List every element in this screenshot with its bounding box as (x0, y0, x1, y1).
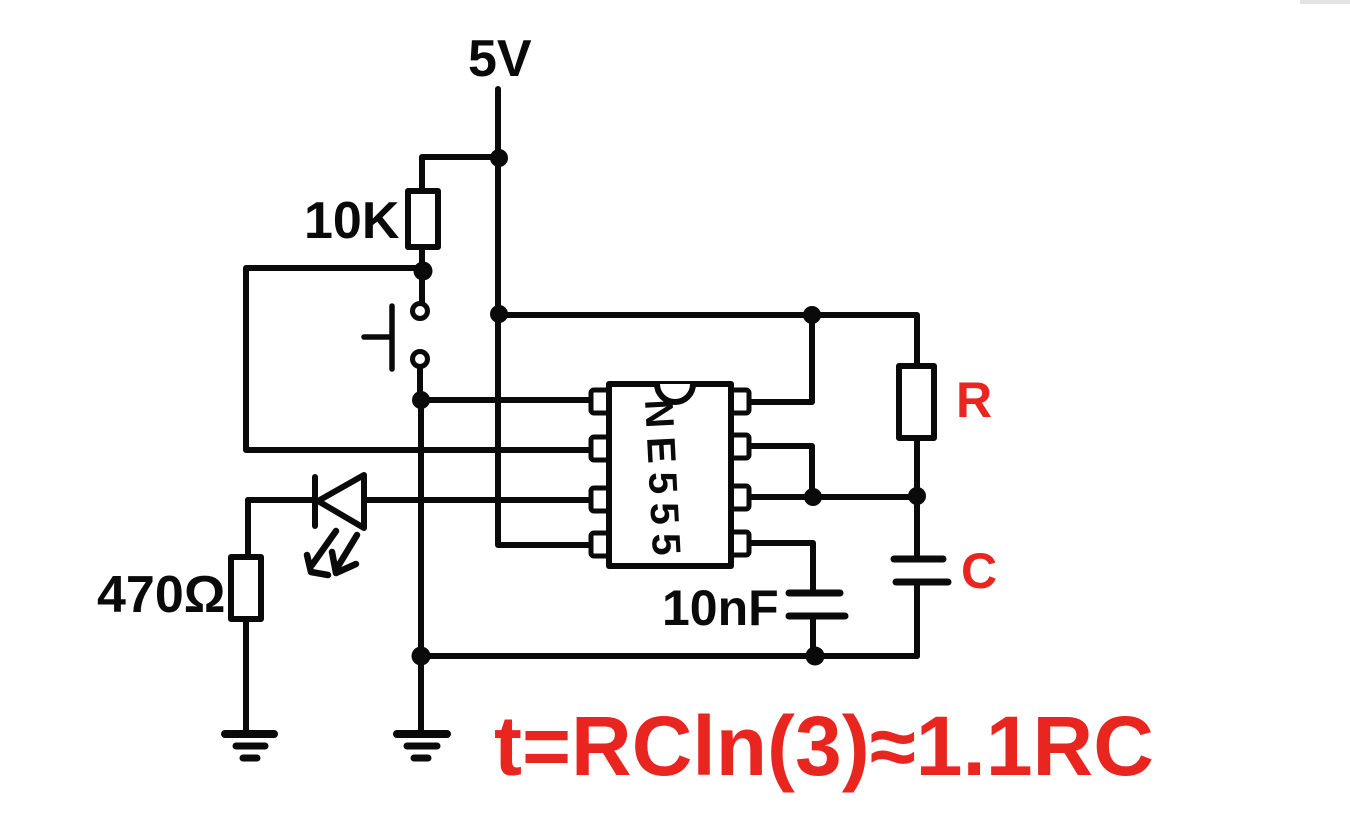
svg-text:470Ω: 470Ω (97, 566, 225, 624)
svg-text:5V: 5V (468, 30, 532, 88)
svg-text:10K: 10K (304, 192, 400, 250)
svg-text:R: R (956, 372, 992, 428)
svg-text:C: C (961, 543, 997, 599)
svg-text:t=RCln(3)≈1.1RC: t=RCln(3)≈1.1RC (494, 699, 1154, 793)
svg-text:10nF: 10nF (662, 580, 779, 636)
svg-text:NE555: NE555 (636, 398, 689, 565)
